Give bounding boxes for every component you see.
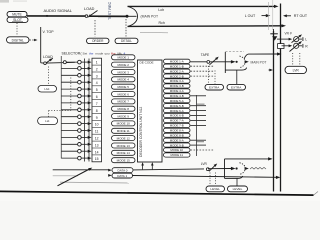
svg-text:15: 15	[95, 157, 99, 161]
node right column oval MODE 5-B	[164, 104, 191, 108]
selector contact row 15	[61, 156, 91, 160]
wire drop to LEVEL oval 2	[236, 178, 238, 185]
svg-text:MODE 4: MODE 4	[117, 78, 129, 82]
svg-text:12: 12	[95, 137, 99, 141]
selector contact row 11	[61, 129, 91, 133]
wire decoder bottom feed 2	[151, 162, 154, 169]
junction dot on main line	[46, 15, 48, 17]
selector contact row 9	[61, 115, 91, 119]
wire dotted drop from LOAD switch	[48, 67, 50, 86]
label SELECTOR caption	[62, 51, 126, 55]
svg-text:Lch: Lch	[158, 8, 164, 12]
switch S1 LOAD arm	[85, 11, 97, 18]
wire short tick into brace	[127, 15, 137, 17]
wire tap from MODE 9-A	[191, 139, 207, 141]
node right column oval MODE 4-A	[164, 89, 191, 93]
svg-text:MODE 9-A: MODE 9-A	[170, 138, 184, 142]
connector jack contact arrow	[245, 60, 249, 63]
brace split arc	[128, 7, 138, 27]
wire left vertical rail	[40, 27, 42, 63]
svg-text:EXTRA: EXTRA	[231, 86, 242, 90]
potentiometer VR-R	[282, 41, 303, 51]
capacitor tick on rail	[270, 29, 278, 34]
node right column oval MODE 2-A	[164, 69, 191, 73]
polarity triangle on rail	[272, 36, 277, 40]
svg-text:MODE 3-B: MODE 3-B	[170, 84, 184, 88]
svg-text:MODE 8-A: MODE 8-A	[170, 129, 184, 133]
svg-text:L: L	[305, 38, 307, 42]
wire dashed tap from MODE 10	[191, 149, 215, 151]
svg-text:2: 2	[96, 67, 98, 71]
wire faint second line	[53, 175, 78, 177]
node ORDER option oval	[87, 38, 110, 43]
svg-text:MODE 5-B: MODE 5-B	[170, 104, 184, 108]
svg-text:DE CODE: DE CODE	[140, 61, 154, 65]
selector contact row 4	[61, 80, 91, 84]
selector contact row 6	[61, 94, 91, 98]
selector contact row 5	[61, 87, 91, 91]
svg-text:MODE 3-A: MODE 3-A	[170, 79, 184, 83]
svg-text:DATA 1: DATA 1	[117, 174, 127, 178]
svg-text:the: the	[89, 51, 94, 55]
svg-text:MODE 2-B: MODE 2-B	[170, 74, 184, 78]
box pad on rail2	[278, 44, 284, 49]
svg-text:MODE 9-B: MODE 9-B	[170, 143, 184, 147]
node MODE 12 oval	[112, 136, 136, 141]
wire dashed drop to DETAIL oval	[125, 19, 127, 37]
wire tap from MODE 9-B	[191, 144, 207, 146]
node right column oval MODE 7-A	[164, 118, 191, 122]
svg-text:MODE 4-B: MODE 4-B	[170, 94, 184, 98]
node EXTRA option oval 1	[205, 84, 224, 90]
node right column oval MODE 8-B	[164, 133, 191, 137]
svg-text:5: 5	[96, 88, 98, 92]
svg-text:MAIN POT: MAIN POT	[251, 60, 267, 64]
wire dashed tap from MODE 1-B	[191, 65, 215, 67]
svg-text:LVR: LVR	[293, 68, 300, 72]
node MODE 9 oval	[112, 114, 136, 119]
wire bottom border line	[0, 191, 314, 195]
node right column oval MODE 1-B	[164, 64, 191, 68]
wire dotted drop to LEVEL oval 1	[209, 173, 211, 186]
wire tap from MODE 4-B	[191, 95, 207, 97]
node DATA B oval	[108, 173, 132, 178]
node right column oval MODE 6-A	[164, 109, 191, 113]
node right column oval MODE 9-B	[164, 143, 191, 147]
wire AUDIO SIGNAL main line	[27, 15, 86, 17]
svg-text:MODE 5-A: MODE 5-A	[170, 99, 184, 103]
selector contact row 10	[61, 122, 91, 126]
svg-text:11: 11	[95, 130, 99, 134]
wire selector bus bar left	[84, 59, 86, 162]
label L OUT with leader arrow	[245, 14, 270, 18]
svg-text:R: R	[305, 44, 308, 48]
svg-text:MODE 15: MODE 15	[117, 159, 131, 163]
node right column oval MODE 11	[164, 153, 191, 157]
junction dot at split	[126, 15, 129, 18]
wire right rail 1	[273, 31, 275, 192]
svg-text:14: 14	[95, 150, 99, 154]
svg-text:DIGITAL: DIGITAL	[12, 38, 24, 42]
node MUTE input oval	[7, 12, 27, 17]
potentiometer VR-L	[277, 34, 303, 42]
selector contact row 13	[61, 143, 91, 147]
svg-text:MODE 1-B: MODE 1-B	[170, 64, 184, 68]
node right column oval MODE 10	[164, 148, 191, 152]
wire decoder bottom feed 1	[141, 162, 144, 169]
node MAG option oval	[38, 86, 57, 93]
svg-text:Rch: Rch	[159, 21, 165, 25]
wire drop jack box to EXTRA2 oval	[236, 70, 238, 84]
svg-text:DETAIL: DETAIL	[121, 39, 132, 43]
junction dot at jack 2	[236, 167, 238, 169]
selector position number column	[92, 58, 102, 162]
svg-text:L OUT: L OUT	[245, 14, 256, 18]
svg-text:SELECTOR: SELECTOR	[62, 51, 81, 55]
svg-text:MODE 6-A: MODE 6-A	[170, 109, 184, 113]
wire Rch output line	[128, 24, 287, 27]
node MODE 15 oval	[112, 158, 136, 163]
svg-text:LEVEL: LEVEL	[233, 187, 243, 191]
wire dotted link SLOT to DIGITAL	[16, 23, 18, 36]
svg-text:MODE 6: MODE 6	[117, 92, 129, 96]
node SLOT input oval	[7, 17, 28, 22]
wire line from top right oval to tape switch	[190, 61, 207, 63]
node MODE 11 oval	[112, 128, 136, 133]
node MODE 3 oval	[112, 70, 136, 75]
wire arrow into rail at LVR	[269, 69, 274, 72]
connector jack2 contact arrow	[245, 167, 249, 170]
wire LVR switch to jack 2	[208, 168, 232, 170]
node right column oval MODE 8-A	[164, 128, 191, 132]
node DATA option oval left	[38, 117, 58, 125]
svg-text:MODE 13: MODE 13	[117, 144, 131, 148]
node MODE 8 oval	[112, 106, 136, 111]
selector contact row 2	[61, 67, 91, 71]
node DATA A oval	[108, 168, 133, 173]
node MODE 10 oval	[112, 121, 136, 126]
svg-text:1: 1	[96, 61, 98, 65]
svg-text:MODE 4-A: MODE 4-A	[170, 89, 184, 93]
svg-text:LEVEL: LEVEL	[210, 187, 220, 191]
node right column oval MODE 2-B	[164, 74, 191, 78]
node LVR oval	[285, 66, 307, 73]
svg-text:10: 10	[95, 123, 99, 127]
svg-text:MODE 2-A: MODE 2-A	[170, 69, 184, 73]
node MODE 2 oval	[112, 62, 136, 67]
box jack enclosure left/bottom	[225, 52, 246, 73]
svg-text:MODE 10: MODE 10	[117, 122, 131, 126]
switch S5 LVR arm	[206, 164, 217, 172]
switch S2 selector load arm	[41, 58, 53, 64]
node right column oval MODE 1-A	[164, 59, 191, 63]
svg-text:DECODER CONTROL UNIT N12: DECODER CONTROL UNIT N12	[139, 107, 143, 157]
svg-text:MODE 12: MODE 12	[117, 136, 131, 140]
svg-text:V. TOP: V. TOP	[43, 30, 55, 34]
svg-text:7: 7	[96, 102, 98, 106]
wire dotted drop from VR-R	[299, 53, 301, 65]
svg-text:MODE 7-B: MODE 7-B	[170, 124, 184, 128]
wire tap from MODE 5-B	[191, 105, 207, 107]
label squiggle jack 2	[250, 167, 266, 169]
node MODE 14 oval	[112, 150, 136, 155]
wire faint smudge top-left	[0, 0, 9, 3]
wire main line after switch	[90, 15, 126, 17]
svg-text:MODE 11: MODE 11	[170, 153, 183, 157]
svg-text:you: you	[105, 51, 110, 55]
svg-text:MUTE: MUTE	[12, 12, 22, 16]
node right column oval MODE 3-B	[164, 84, 191, 88]
connector P2 plug arrow	[231, 167, 236, 170]
svg-text:MODE 11: MODE 11	[117, 129, 130, 133]
box jack2 enclosure left/bottom	[225, 159, 243, 179]
wire dashed tap from MODE 2-A	[191, 70, 215, 72]
node EXTRA option oval 2	[227, 84, 246, 90]
svg-text:3: 3	[96, 74, 98, 78]
wire bus B long line to right rails	[133, 176, 281, 179]
node right column oval MODE 4-B	[164, 94, 191, 98]
wire dashed tap from MODE 2-B	[191, 75, 215, 77]
wire tap from MODE 6-A	[191, 110, 207, 112]
svg-text:MODE 14: MODE 14	[117, 151, 131, 155]
switch S3 tape arm	[207, 57, 219, 65]
svg-text:EXTRA: EXTRA	[209, 86, 220, 90]
svg-text:MODE 7: MODE 7	[117, 100, 129, 104]
wire Lch output line	[128, 5, 279, 8]
node right column oval MODE 5-A	[164, 99, 191, 103]
wire faint segment lower	[60, 181, 129, 184]
svg-text:ORDER: ORDER	[92, 39, 104, 43]
svg-text:MODE 7-A: MODE 7-A	[170, 119, 184, 123]
svg-text:MODE 1-A: MODE 1-A	[170, 60, 184, 64]
svg-text:MODE 8-B: MODE 8-B	[170, 133, 184, 137]
svg-text:LOAD: LOAD	[84, 7, 95, 11]
node DETAIL option oval	[115, 38, 138, 43]
wire faint vertical at x268	[268, 2, 270, 30]
svg-text:MODE 1: MODE 1	[117, 56, 129, 60]
connector J1 jack arc	[240, 56, 246, 68]
wire bottom line end hook	[314, 192, 319, 196]
node MODE 1 oval	[112, 55, 136, 60]
wire bottom bus line A	[53, 169, 109, 171]
wire tape switch to jack	[210, 61, 232, 63]
node MODE 13 oval	[112, 143, 136, 148]
node MODE 7 oval	[112, 99, 136, 104]
node DIGITAL oval	[7, 37, 30, 43]
svg-text:VR #: VR #	[285, 31, 292, 35]
node MODE 4 oval	[112, 77, 136, 82]
wire faint vertical near L OUT arrow	[272, 0, 274, 30]
wire dashed drop to ORDER oval	[94, 20, 96, 37]
wire R OUT leader arrow	[283, 14, 291, 17]
svg-text:TAPE: TAPE	[201, 53, 210, 57]
svg-text:AUDIO SIGNAL: AUDIO SIGNAL	[44, 8, 73, 13]
wire dashed arrow from DIGITAL	[30, 39, 38, 42]
svg-text:(MAIN POT: (MAIN POT	[141, 14, 159, 18]
svg-text:8: 8	[96, 109, 98, 113]
svg-text:Lbd.: Lbd.	[44, 87, 50, 91]
node MODE 6 oval	[112, 92, 136, 97]
svg-text:RT OUT: RT OUT	[294, 14, 308, 18]
connector J2 jack arc	[240, 163, 246, 175]
node right column oval MODE 3-A	[164, 79, 191, 83]
svg-text:MODE 8: MODE 8	[117, 107, 129, 111]
wire tap from MODE 6-B	[191, 115, 207, 117]
svg-text:6: 6	[96, 95, 98, 99]
wire right rail 2	[280, 4, 282, 192]
node LEVEL oval 1	[206, 186, 225, 192]
svg-text:MODE 3: MODE 3	[117, 70, 129, 74]
wire selector vertical rail	[60, 56, 62, 159]
svg-text:MODE 10: MODE 10	[170, 148, 183, 152]
svg-text:MODE 6-B: MODE 6-B	[170, 114, 184, 118]
wire faint ghost segment under Rch line	[140, 31, 168, 34]
selector contact row 14	[61, 149, 91, 153]
svg-text:MODE 9: MODE 9	[117, 114, 129, 118]
svg-text:4: 4	[96, 81, 98, 85]
box jack2 enclosure top with arrow to rail	[225, 157, 273, 160]
wire collector stubs	[197, 103, 205, 105]
selector contact row 12	[61, 136, 91, 140]
svg-text:DATA 0: DATA 0	[118, 169, 128, 173]
wire dotted drop tape switch to EXTRA oval	[208, 66, 210, 84]
svg-text:9: 9	[96, 116, 98, 120]
node LEVEL oval 2	[228, 186, 248, 192]
selector contact row 8	[61, 108, 91, 112]
svg-text:mode: mode	[96, 51, 104, 55]
wire collector vertical line	[196, 95, 198, 156]
svg-text:MODE 5: MODE 5	[117, 85, 129, 89]
wire dashed jack enclosure top	[226, 50, 245, 52]
node right column oval MODE 6-B	[164, 113, 191, 117]
connector P1 plug arrow	[231, 60, 236, 63]
svg-text:13: 13	[95, 143, 99, 147]
svg-text:LVR: LVR	[201, 162, 208, 166]
node right column oval MODE 7-B	[164, 123, 191, 127]
wire tap from MODE 7-A	[191, 120, 207, 122]
wire mid line to brace	[98, 15, 128, 17]
wire LOAD switch to selector rail	[47, 61, 75, 64]
wire jack output to right rail	[244, 52, 281, 58]
svg-text:Ltd.: Ltd.	[45, 119, 50, 123]
wire dotted drop from VR-L	[292, 53, 294, 65]
svg-text:MODE 2: MODE 2	[117, 63, 129, 67]
selector contact row 7	[61, 101, 91, 105]
switch S4 master wiper diagonal	[58, 168, 93, 186]
svg-text:TEST REC: TEST REC	[108, 1, 112, 20]
wire dotted annotation path	[49, 78, 71, 117]
selector contact row 3	[61, 74, 91, 78]
wire selector bus bar right	[88, 59, 90, 162]
selector contact row 1	[63, 60, 91, 64]
node right column oval MODE 9-A	[164, 138, 191, 142]
junction dot at jack	[236, 61, 238, 63]
wire bus A continue to LVR switch	[133, 169, 204, 170]
svg-text:LOAD: LOAD	[43, 55, 53, 59]
svg-text:Set: Set	[83, 51, 88, 55]
wire tap from MODE 7-B	[191, 124, 207, 126]
box U1 decoder	[138, 60, 163, 162]
node MODE 5 oval	[112, 84, 136, 89]
